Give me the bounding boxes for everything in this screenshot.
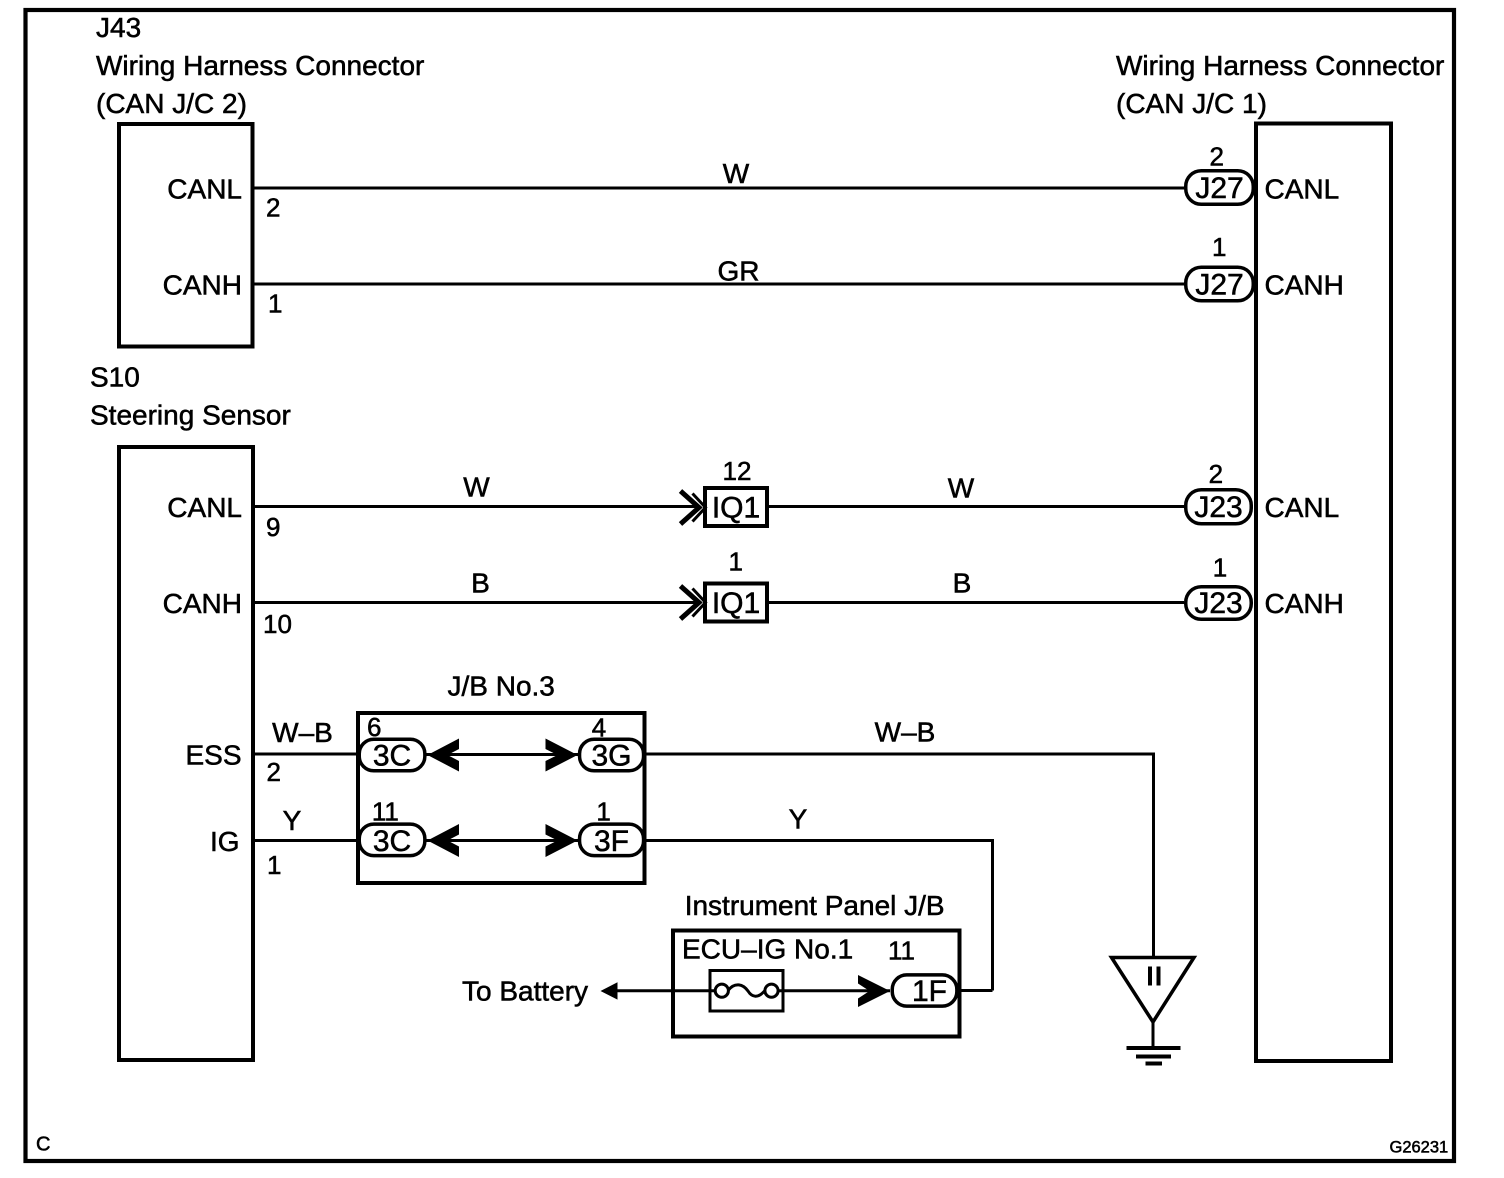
svg-text:1F: 1F bbox=[912, 975, 947, 1008]
connector 1F (pin 11) bbox=[888, 936, 957, 1008]
wire Y vertical down bbox=[991, 841, 994, 991]
connector IQ1 top (pin 12) bbox=[705, 456, 767, 526]
junction block Instrument Panel J/B box bbox=[673, 931, 960, 1037]
svg-text:J43: J43 bbox=[96, 12, 141, 43]
svg-text:W: W bbox=[463, 472, 490, 503]
svg-text:1: 1 bbox=[1213, 553, 1227, 583]
svg-text:W–B: W–B bbox=[272, 717, 333, 748]
svg-text:IG: IG bbox=[210, 826, 240, 857]
wire Y horizontal into 1F bbox=[955, 989, 993, 992]
sensor S10 box bbox=[119, 447, 253, 1060]
fuse element squiggle bbox=[728, 985, 764, 996]
fuse ECU-IG No.1 box bbox=[710, 971, 783, 1012]
connector J27 pin 2 bbox=[1186, 142, 1339, 205]
wire W-B from 3G to ground, horizontal bbox=[646, 753, 1155, 756]
svg-text:GR: GR bbox=[718, 256, 760, 287]
wire W from J43 pin2 to J27 pin2 bbox=[255, 187, 1185, 190]
svg-text:J/B No.3: J/B No.3 bbox=[448, 671, 555, 702]
wire battery feed bbox=[615, 989, 722, 992]
male connector chevron IQ1 top bbox=[681, 491, 706, 524]
arrow left at 3C bottom bbox=[428, 824, 460, 857]
svg-text:12: 12 bbox=[723, 456, 752, 486]
svg-text:J23: J23 bbox=[1194, 587, 1242, 620]
connector J43 box (CAN J/C 2) bbox=[119, 124, 253, 347]
svg-text:1: 1 bbox=[1212, 232, 1226, 262]
To Battery arrowhead bbox=[601, 982, 618, 999]
svg-text:CANH: CANH bbox=[163, 588, 242, 619]
svg-text:Wiring Harness Connector: Wiring Harness Connector bbox=[1116, 50, 1444, 81]
svg-text:ESS: ESS bbox=[185, 739, 241, 770]
wire W from IQ1 to J23 pin2 bbox=[769, 505, 1184, 508]
junction block J/B No.3 box bbox=[358, 713, 645, 883]
internal wire 3C to 3G bbox=[426, 753, 578, 756]
svg-text:9: 9 bbox=[266, 512, 280, 542]
connector J23 pin 2 bbox=[1186, 459, 1339, 524]
sensor S10 title bbox=[90, 362, 291, 431]
svg-text:Instrument Panel J/B: Instrument Panel J/B bbox=[685, 890, 945, 921]
connector 3C (pin 6) bbox=[359, 712, 425, 772]
wire W-B from S10 pin2 to 3C bbox=[255, 753, 359, 756]
svg-text:B: B bbox=[471, 568, 490, 599]
svg-text:CANL: CANL bbox=[167, 174, 242, 205]
svg-text:CANL: CANL bbox=[1265, 492, 1340, 523]
arrow left at 3C top bbox=[428, 739, 460, 772]
connector J23 pin 1 bbox=[1186, 553, 1344, 620]
ground symbol II bbox=[1112, 958, 1195, 1064]
svg-text:3G: 3G bbox=[591, 739, 631, 772]
connector J27 pin 1 bbox=[1186, 232, 1344, 301]
svg-text:3F: 3F bbox=[594, 825, 629, 858]
svg-text:CANH: CANH bbox=[163, 270, 242, 301]
svg-text:Y: Y bbox=[789, 804, 808, 835]
svg-text:W: W bbox=[948, 473, 975, 504]
junction connector CAN J/C 1 title bbox=[1116, 50, 1444, 119]
wire W-B vertical to ground bbox=[1152, 754, 1155, 958]
svg-text:CANH: CANH bbox=[1265, 588, 1344, 619]
svg-text:S10: S10 bbox=[90, 362, 140, 393]
svg-text:To Battery: To Battery bbox=[462, 976, 588, 1007]
connector IQ1 bottom (pin 1) bbox=[705, 547, 767, 622]
arrow right at 3G bbox=[546, 739, 578, 772]
svg-text:Y: Y bbox=[283, 805, 302, 836]
svg-text:B: B bbox=[953, 568, 972, 599]
svg-text:1: 1 bbox=[729, 547, 743, 577]
svg-text:1: 1 bbox=[267, 850, 281, 880]
svg-text:2: 2 bbox=[266, 193, 280, 223]
wire W from S10 pin9 to IQ1 bbox=[255, 505, 698, 508]
connector J43 title bbox=[96, 12, 424, 119]
wire Y from 3F right, horizontal bbox=[646, 839, 994, 842]
wire GR from J43 pin1 to J27 pin1 bbox=[255, 283, 1185, 286]
svg-text:IQ1: IQ1 bbox=[712, 587, 760, 620]
svg-text:11: 11 bbox=[372, 797, 399, 827]
male connector chevron IQ1 bottom bbox=[681, 586, 706, 619]
svg-text:Steering Sensor: Steering Sensor bbox=[90, 400, 291, 431]
svg-text:CANL: CANL bbox=[167, 492, 242, 523]
svg-text:3C: 3C bbox=[373, 739, 411, 772]
fuse terminal circle left bbox=[715, 984, 728, 997]
svg-text:W: W bbox=[723, 158, 750, 189]
svg-text:CANH: CANH bbox=[1265, 269, 1344, 300]
internal wire 3C to 3F bbox=[426, 839, 578, 842]
arrow right at 3F bbox=[546, 824, 578, 857]
svg-text:(CAN J/C 2): (CAN J/C 2) bbox=[96, 88, 247, 119]
svg-text:(CAN J/C 1): (CAN J/C 1) bbox=[1116, 88, 1267, 119]
svg-text:1: 1 bbox=[596, 797, 610, 827]
svg-text:3C: 3C bbox=[373, 825, 411, 858]
fuse terminal circle right bbox=[765, 984, 778, 997]
connector 3C (pin 11) bbox=[359, 797, 425, 858]
svg-text:CANL: CANL bbox=[1265, 173, 1340, 204]
svg-text:G26231: G26231 bbox=[1390, 1139, 1449, 1157]
svg-text:Wiring Harness Connector: Wiring Harness Connector bbox=[96, 50, 424, 81]
wire B from IQ1 to J23 pin1 bbox=[769, 601, 1184, 604]
svg-text:W–B: W–B bbox=[875, 717, 936, 748]
svg-text:IQ1: IQ1 bbox=[712, 491, 760, 524]
svg-text:J27: J27 bbox=[1195, 268, 1243, 301]
connector 3G (pin 4) bbox=[580, 713, 644, 773]
svg-text:C: C bbox=[36, 1134, 50, 1156]
wire Y from S10 pin1 to 3C bottom bbox=[255, 839, 359, 842]
junction connector CAN J/C 1 box bbox=[1256, 124, 1391, 1062]
svg-text:ECU–IG No.1: ECU–IG No.1 bbox=[682, 934, 853, 965]
svg-text:2: 2 bbox=[1210, 142, 1224, 172]
svg-text:1: 1 bbox=[268, 289, 282, 319]
svg-text:J27: J27 bbox=[1195, 172, 1243, 205]
svg-text:J23: J23 bbox=[1194, 491, 1242, 524]
svg-text:10: 10 bbox=[263, 609, 292, 639]
arrow right at 1F bbox=[858, 975, 890, 1007]
wire B from S10 pin10 to IQ1 bbox=[255, 601, 698, 604]
svg-text:2: 2 bbox=[267, 757, 281, 787]
svg-text:2: 2 bbox=[1209, 459, 1223, 489]
svg-text:11: 11 bbox=[888, 936, 915, 966]
connector 3F (pin 1) bbox=[580, 797, 644, 858]
